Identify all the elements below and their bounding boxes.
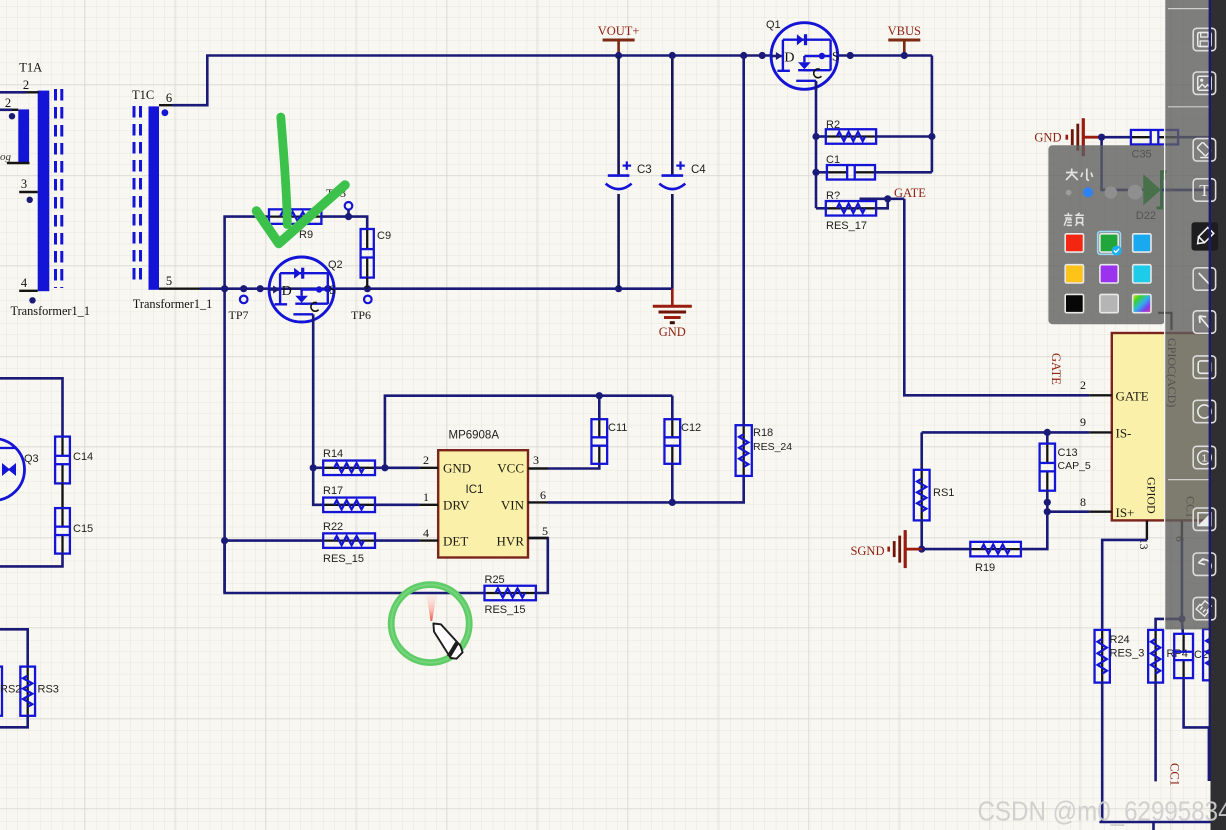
toolbar separators [1168, 8, 1209, 10]
resistor R19 [970, 548, 1021, 550]
resistor R18 [743, 425, 745, 476]
IC2 top corner wire [1158, 313, 1172, 330]
svg-text:C12: C12 [681, 422, 701, 434]
svg-text:RES_15: RES_15 [323, 553, 364, 565]
svg-text:3: 3 [21, 177, 27, 191]
net label GATE [860, 198, 905, 201]
toolbar panel [1164, 0, 1166, 629]
svg-text:IC1: IC1 [466, 484, 484, 496]
svg-text:Q3: Q3 [24, 453, 39, 465]
toolbar icon text [1193, 179, 1215, 201]
IC2 pin 13 stub [1146, 520, 1148, 540]
svg-text:RS2: RS2 [0, 684, 21, 696]
wire left long vertical x=224.6 [223, 289, 226, 593]
svg-text:GATE: GATE [894, 186, 926, 200]
T1A pin 3 [19, 191, 38, 193]
IC2 bottom pin 6 stub [1181, 520, 1183, 540]
palette label color (yan-se) [1064, 213, 1084, 226]
wire D22 cathode right [1162, 189, 1210, 192]
svg-text:R22: R22 [323, 521, 343, 533]
capacitor C11 [598, 419, 600, 437]
svg-text:DET: DET [443, 534, 468, 549]
svg-text:3: 3 [533, 453, 539, 467]
toolbar icon rect [1193, 356, 1215, 378]
capacitor C9 [366, 229, 368, 249]
svg-text:MP6908A: MP6908A [449, 430, 500, 442]
svg-text:D: D [784, 51, 794, 66]
resistor bottom-right 2 [1154, 630, 1156, 683]
svg-text:S: S [832, 49, 839, 64]
svg-text:C9: C9 [377, 230, 391, 242]
wire bottom HVR row [225, 541, 485, 593]
toolbar icon image [1193, 72, 1215, 94]
svg-text:RS3: RS3 [38, 684, 59, 696]
wire GND pin2 [385, 466, 420, 469]
svg-text:RS1: RS1 [933, 487, 954, 499]
resistor RS1 [921, 470, 923, 521]
wire R18 up to top rail [742, 56, 745, 426]
transistor Q2 [269, 257, 334, 322]
wire R25 right to HVR pin5 [528, 538, 548, 593]
svg-text:RES_3: RES_3 [1110, 648, 1145, 660]
wire VCC pin3 to C11 [548, 464, 599, 469]
svg-text:T1C: T1C [132, 88, 154, 102]
svg-text:C14: C14 [73, 451, 93, 463]
wire R24 down [1101, 683, 1104, 822]
transformer T1A [18, 61, 62, 292]
wire pin13 left and down [1102, 540, 1147, 630]
diode D22 over panel [1143, 174, 1160, 205]
svg-text:IS-: IS- [1116, 426, 1132, 441]
resistor R25 [485, 592, 536, 594]
wire R9 right to C9 [321, 217, 367, 230]
T1C pin 6 [159, 104, 172, 106]
wire C15 bottom [0, 554, 63, 567]
palette color swatches [1065, 234, 1083, 252]
svg-text:CAP_5: CAP_5 [1058, 460, 1091, 472]
svg-text:2: 2 [1080, 378, 1086, 392]
toolbar icon clean [1193, 597, 1215, 619]
selected swatch check [1098, 232, 1121, 255]
test point TP7 [240, 296, 248, 304]
svg-text:C11: C11 [608, 422, 627, 434]
svg-text:S: S [329, 282, 336, 297]
svg-text:RES_24: RES_24 [753, 441, 792, 453]
IC2 pin GATE [1089, 394, 1112, 396]
wire DET pin4 to left vertical [225, 539, 324, 542]
wire Q1 gate vertical [815, 82, 818, 208]
transistor Q3 (partial) [0, 439, 25, 501]
toolbar icon arrow [1193, 311, 1215, 333]
toolbar icon undo [1193, 553, 1215, 575]
resistor R? [816, 207, 826, 210]
wire RS3 bottom [0, 716, 28, 728]
toolbar icon save [1193, 28, 1215, 50]
svg-text:C3: C3 [637, 164, 652, 176]
wire main row [200, 287, 672, 290]
capacitor C15 [61, 508, 63, 527]
cursor pencil [433, 624, 462, 659]
svg-text:R25: R25 [485, 574, 505, 586]
annotation palette panel [1048, 145, 1165, 324]
resistor R17 [323, 504, 375, 506]
svg-text:8: 8 [1080, 495, 1086, 509]
svg-text:4: 4 [423, 526, 429, 540]
wire IS+ rail [1047, 510, 1089, 513]
svg-text:R14: R14 [323, 448, 343, 460]
svg-text:R9: R9 [299, 229, 313, 241]
toolbar icon circle [1193, 400, 1215, 422]
svg-text:GPIOD: GPIOD [1145, 477, 1159, 514]
svg-text:GND: GND [1034, 131, 1061, 145]
svg-text:6: 6 [166, 91, 172, 105]
bottom-right partial component [1099, 821, 1226, 824]
svg-text:Q2: Q2 [328, 259, 343, 271]
svg-text:9: 9 [1080, 415, 1086, 429]
wire R14 right junction up to GND-pin rail [375, 466, 385, 469]
resistor R2 [816, 135, 826, 138]
svg-text:GATE: GATE [1116, 389, 1149, 404]
wire R14 left stub [313, 466, 323, 469]
svg-text:D: D [282, 284, 292, 299]
palette size dots [1066, 190, 1072, 196]
wire Q2 gate down [313, 320, 323, 505]
svg-text:R24: R24 [1110, 634, 1130, 646]
toolbar icon eraser [1193, 139, 1215, 161]
svg-text:GND: GND [659, 325, 686, 339]
wire T1C pin6 to top rail [172, 56, 771, 106]
svg-text:VOUT+: VOUT+ [598, 24, 640, 38]
resistor R14 [323, 467, 375, 469]
cursor laser beam [426, 595, 436, 622]
svg-text:SGND: SGND [850, 544, 884, 558]
T1C pin 5 [159, 288, 200, 290]
junction dots main row [221, 285, 228, 292]
svg-text:C15: C15 [73, 523, 93, 535]
svg-text:TP7: TP7 [229, 308, 249, 322]
IC U2 body (partially hidden) [1112, 333, 1218, 520]
svg-text:GATE: GATE [1049, 353, 1063, 385]
svg-text:CC1: CC1 [1168, 763, 1182, 786]
capacitor C12 [671, 419, 673, 437]
wire bottom-right net [1181, 540, 1184, 619]
svg-text:5: 5 [542, 524, 548, 538]
test point TP6 [364, 296, 372, 304]
svg-text:T: T [1199, 181, 1210, 200]
svg-text:Q1: Q1 [766, 19, 781, 31]
wire RS3 net [0, 629, 28, 666]
svg-text:1: 1 [1201, 453, 1207, 465]
svg-text:CSDN @m0_62995834: CSDN @m0_62995834 [978, 796, 1226, 827]
wire GATE vertical to IC2 [904, 199, 1089, 395]
svg-text:R18: R18 [753, 427, 773, 439]
annotation green check stroke [257, 185, 346, 244]
svg-text:VIN: VIN [501, 498, 525, 513]
IC2 pin IS+ [1089, 511, 1112, 513]
palette label size (da-xiao) [1066, 169, 1093, 181]
svg-text:R17: R17 [323, 485, 343, 497]
svg-text:DRV: DRV [443, 498, 470, 513]
resistor bottom-right 3 [1210, 629, 1212, 680]
svg-text:1: 1 [423, 490, 429, 504]
wire R? right to GATE net [876, 199, 888, 209]
svg-text:R?: R? [826, 190, 840, 202]
toolbar icon line [1193, 268, 1215, 290]
svg-text:C1: C1 [826, 154, 840, 166]
toolbar icon number [1193, 446, 1215, 468]
wire to CC1 label [1154, 683, 1157, 782]
svg-text:R2: R2 [826, 119, 840, 131]
capacitor C1 [816, 171, 827, 174]
svg-text:C13: C13 [1058, 447, 1078, 459]
IC1 pin stubs [419, 467, 438, 469]
T1A pin 2 top [0, 91, 26, 94]
wire DRV pin1 [375, 503, 419, 506]
svg-text:2: 2 [423, 453, 429, 467]
wire long right vertical [1209, 0, 1211, 781]
wire VIN pin6 rail [548, 476, 744, 503]
svg-text:Transformer1_1: Transformer1_1 [133, 297, 212, 311]
cursor green ring [391, 585, 469, 663]
wire RS1 vertical [920, 432, 923, 469]
capacitor C35 [1102, 136, 1131, 139]
svg-text:4: 4 [21, 276, 28, 290]
svg-text:T1A: T1A [19, 61, 42, 75]
annotation green arrow stroke [281, 117, 287, 225]
transformer T1C [132, 88, 168, 290]
wire right vertical to C1 row [931, 56, 934, 173]
svg-text:VBUS: VBUS [888, 24, 921, 38]
resistor RS2 (partial) [0, 667, 2, 716]
transistor Q1 [771, 23, 838, 90]
svg-text:og: og [0, 151, 12, 163]
svg-text:2: 2 [5, 96, 11, 110]
svg-text:5: 5 [166, 274, 172, 288]
wire C14 net top [0, 378, 63, 436]
svg-text:R19: R19 [975, 562, 995, 574]
IC U1 MP6908A body [438, 450, 528, 557]
IC2 pin IS- [1089, 431, 1112, 433]
T1A pin 4 [19, 290, 38, 292]
toolbar icon fill [1193, 508, 1215, 530]
svg-text:RES_15: RES_15 [485, 604, 526, 616]
test point TP3 [345, 202, 353, 210]
capacitor C13 [1046, 432, 1049, 443]
T1A pin 2 left winding [0, 109, 12, 112]
svg-text:RES_17: RES_17 [826, 220, 867, 232]
resistor RS3 [27, 667, 29, 716]
svg-text:IS+: IS+ [1116, 505, 1135, 520]
toolbar icon pen selected [1192, 222, 1219, 250]
resistor R22 [323, 539, 375, 541]
svg-text:HVR: HVR [497, 534, 525, 549]
diode D22 [1143, 174, 1160, 205]
wire R9 left vertical [225, 217, 269, 289]
capacitor bottom-right C2x [1182, 619, 1183, 634]
wire top rail right of Q1 [838, 54, 932, 57]
svg-text:TP6: TP6 [351, 308, 371, 322]
wire IS- rail [922, 431, 1090, 434]
svg-text:Transformer1_1: Transformer1_1 [11, 304, 90, 318]
resistor R24 [1101, 630, 1103, 683]
svg-text:VCC: VCC [497, 461, 524, 476]
capacitor C4 string [671, 56, 674, 176]
capacitor C3 string [617, 56, 620, 176]
T1A left winding bottom pin [7, 162, 30, 164]
svg-text:2: 2 [23, 78, 29, 92]
svg-text:6: 6 [540, 488, 546, 502]
svg-text:GND: GND [443, 461, 471, 476]
resistor R9 [269, 215, 321, 217]
capacitor C14 [61, 437, 63, 456]
wire GND junction down to D22 [1102, 137, 1144, 190]
ground GND symbol [671, 289, 674, 306]
svg-text:C4: C4 [691, 164, 706, 176]
toolbar dark strip [1211, 0, 1226, 830]
